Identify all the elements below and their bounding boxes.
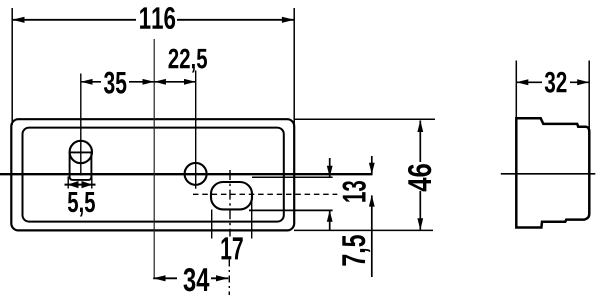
dim 116 extension left	[11, 8, 13, 125]
connector dashed centerline horizontal	[193, 193, 337, 195]
dim 7,5 top segment	[371, 156, 373, 174]
dim 5,5 arrow right	[82, 181, 93, 188]
label 32	[545, 72, 567, 93]
dim 7,5 arrow down	[369, 163, 375, 174]
side view profile	[516, 118, 589, 227]
center hole circle	[185, 163, 207, 185]
recess bottom line	[249, 209, 333, 211]
dim 32 arrow left	[516, 79, 528, 85]
dim 46 arrow up	[417, 120, 423, 132]
horizontal centerline left view	[0, 173, 373, 175]
dim 22,5 line	[154, 81, 196, 83]
dim 116 extension right	[293, 8, 295, 127]
dim 22,5 extension down to hole	[195, 71, 197, 189]
dim 35 arrow right	[143, 79, 155, 85]
label 5,5	[68, 192, 95, 216]
body top edge extension	[294, 118, 435, 120]
label 17	[221, 237, 242, 259]
label 35	[104, 72, 126, 94]
dim 35 arrow left	[81, 79, 93, 85]
dim 32 extension left	[515, 61, 517, 119]
dim 46 line	[419, 121, 421, 163]
screw slot chord	[69, 151, 92, 153]
dim 17 extension right	[251, 196, 253, 239]
dim 46 arrow down	[417, 218, 423, 230]
dim 5,5 line	[65, 184, 96, 186]
dim 116 arrow right	[282, 17, 294, 23]
dim 32 arrow right	[577, 79, 589, 85]
dim 17 extension left	[211, 210, 213, 239]
dim 5,5 extension left	[67, 177, 69, 189]
dim 7,5 arrow up	[369, 195, 375, 206]
body bottom edge extension	[294, 229, 433, 231]
connector dashed centerline vertical lower segment	[228, 260, 230, 296]
dim 13 top segment	[329, 158, 331, 177]
dim 116 arrow left	[12, 17, 24, 23]
dim 35 line	[81, 81, 101, 83]
connector oval	[211, 182, 252, 209]
dim 116 line	[12, 19, 136, 21]
dim 13 bottom segment	[329, 211, 331, 230]
label 116	[140, 7, 175, 29]
connector dashed centerline vertical	[229, 170, 231, 237]
slot vertical axis / 35 extension	[80, 74, 82, 176]
dim 34 arrow right	[216, 275, 228, 281]
lens inner outline	[23, 128, 284, 222]
label 13	[342, 181, 365, 202]
screw slot circle	[70, 141, 92, 163]
dim 34 arrow left	[153, 275, 165, 281]
label 34	[184, 268, 210, 291]
dim 5,5 extension right	[91, 177, 93, 189]
dim 32 extension right	[588, 61, 590, 130]
dim 34 line	[153, 277, 177, 279]
label 7,5	[342, 235, 370, 265]
side view centerline	[501, 173, 596, 175]
label 46	[408, 164, 431, 191]
label 22,5	[169, 49, 208, 73]
body outer outline	[11, 119, 294, 230]
dim 32 line	[516, 81, 542, 83]
vertical axis line x=154	[153, 39, 155, 278]
screw slot sides	[70, 152, 92, 180]
dim 22,5 arrow left	[154, 79, 166, 85]
dim 22,5 arrow right	[184, 79, 196, 85]
dim 13 arrow up	[327, 210, 333, 221]
dim 7,5 bottom segment	[371, 195, 373, 277]
dim 13 arrow down	[327, 166, 333, 177]
recess top line	[252, 176, 333, 178]
dim 5,5 arrow left	[68, 181, 79, 188]
